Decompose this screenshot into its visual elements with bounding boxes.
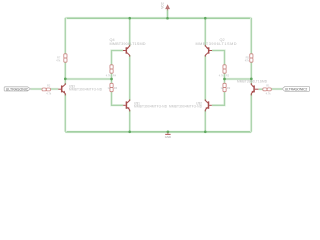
net flag right input <box>282 86 310 91</box>
svg-text:ULTRASONIC2: ULTRASONIC2 <box>285 87 308 91</box>
node junction dot left column node A <box>110 78 113 81</box>
wire mid-left leg Q4 collector to U$1 collector <box>128 55 131 100</box>
wire left leg upper <box>64 18 67 54</box>
svg-text:ULTRASONIC: ULTRASONIC <box>6 87 29 91</box>
wire mid-right leg Q2 collector to U$2 collector <box>204 55 207 100</box>
ground <box>165 133 170 135</box>
node junction dot right node B <box>250 78 253 81</box>
node junction dot right column node B <box>223 78 226 81</box>
svg-text:4.7k: 4.7k <box>106 73 112 77</box>
wire left column middle <box>110 73 113 83</box>
wire right node horizontal <box>225 78 252 81</box>
svg-text:4.7k: 4.7k <box>266 91 272 95</box>
wire U$3 collector stub <box>64 79 67 85</box>
wire left resistor to U$3 base <box>51 88 59 91</box>
wire VCC stub <box>166 10 169 19</box>
node junction dot top mid-left <box>128 17 131 20</box>
transistor Q4 (PNP high-side left) <box>123 45 130 57</box>
resistor R3 (right column upper, vertical) <box>223 65 226 73</box>
node junction dot top VCC <box>166 17 169 20</box>
wire right column lower (to U$2 base) <box>212 92 225 106</box>
wire mid-left leg Q4 emitter <box>128 18 131 46</box>
svg-text:R3: R3 <box>226 73 230 77</box>
wire right column middle <box>223 73 226 83</box>
svg-text:R6: R6 <box>114 86 118 90</box>
wire right resistor to right flag <box>271 88 282 91</box>
svg-text:MMBT3906LT1SMD: MMBT3906LT1SMD <box>237 80 268 84</box>
transistor U$4 (NPN driver right, mirrored) <box>251 83 259 95</box>
svg-text:VCC: VCC <box>160 1 164 8</box>
svg-text:47k: 47k <box>245 58 250 62</box>
resistor R4 (left column upper, vertical) <box>110 65 113 73</box>
wire left column upper (node to Q4 base corner) <box>112 51 124 65</box>
svg-text:MMBT3906LT1SMD: MMBT3906LT1SMD <box>196 42 237 46</box>
transistor U$1 (NPN low-side mid-left) <box>123 99 130 111</box>
resistor R9 (right column lower, vertical) <box>223 83 226 91</box>
svg-text:R2: R2 <box>47 83 51 87</box>
svg-text:MMBT3906LT1SMD: MMBT3906LT1SMD <box>110 42 146 46</box>
svg-text:GND: GND <box>165 135 171 139</box>
node junction dot left node A <box>64 78 67 81</box>
wire bottom GND rail <box>65 130 251 133</box>
node junction dot bottom GND <box>167 130 170 133</box>
node junction dot top mid-right <box>204 17 207 20</box>
resistor R7 (left leg, vertical) <box>64 54 67 62</box>
svg-text:MMBT3904MTF3-ND: MMBT3904MTF3-ND <box>69 88 103 92</box>
resistor R2 (left input, horizontal) <box>42 88 51 91</box>
svg-text:4.7k: 4.7k <box>46 92 52 96</box>
wire GND stub <box>167 132 169 133</box>
wire left leg lower <box>64 62 67 79</box>
wire U$4 collector stub <box>250 79 253 85</box>
resistor R8 (right leg, vertical) <box>250 54 253 62</box>
wire right leg upper <box>250 18 253 54</box>
svg-text:R9: R9 <box>227 86 231 90</box>
svg-text:4.7k: 4.7k <box>219 73 225 77</box>
wire U$4 base to right resistor <box>259 88 263 91</box>
node junction dot bottom mid-left <box>128 130 131 133</box>
wire mid-left leg U$1 emitter to bottom rail <box>128 110 131 132</box>
svg-text:R1: R1 <box>266 83 270 87</box>
net flag left input <box>4 87 30 92</box>
wire top VCC rail <box>65 17 251 20</box>
node junction dot bottom mid-right <box>204 130 207 133</box>
transistor U$3 (NPN driver left) <box>58 83 66 95</box>
wire right leg lower <box>250 62 253 79</box>
wire left input flag to resistor <box>31 88 42 91</box>
supply VCC <box>166 5 169 10</box>
wire right column upper (Q2 base corner to node) <box>212 51 225 65</box>
transistor Q2 (PNP high-side right, mirrored) <box>205 45 212 57</box>
resistor R6 (left column lower, vertical) <box>110 83 113 91</box>
svg-text:MMBT3904MTF3-ND: MMBT3904MTF3-ND <box>134 105 168 109</box>
wire mid-right leg Q2 emitter <box>204 18 207 46</box>
svg-text:R4: R4 <box>113 73 117 77</box>
transistor U$2 (NPN low-side mid-right, mirrored) <box>205 99 212 111</box>
resistor R1 (right input, horizontal) <box>263 88 272 91</box>
svg-text:MMBT3904MTF3-ND: MMBT3904MTF3-ND <box>169 105 203 109</box>
wire left column lower (to U$1 base) <box>112 92 124 106</box>
wire U$3 emitter to bottom rail <box>64 94 67 132</box>
wire mid-right leg U$2 emitter to bottom rail <box>204 110 207 132</box>
wire left node horizontal <box>65 78 111 81</box>
svg-text:47k: 47k <box>56 58 61 62</box>
wire U$4 emitter to bottom rail <box>250 94 253 132</box>
